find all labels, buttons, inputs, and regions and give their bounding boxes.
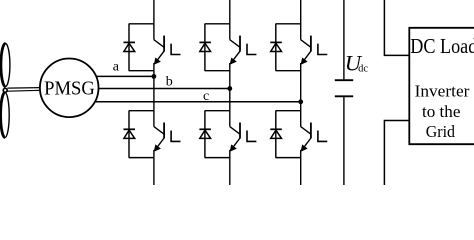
node a label (113, 60, 120, 75)
svg-text:PMSG: PMSG (44, 77, 95, 99)
wire leg1 rail top (153, 0, 155, 40)
wire leg2 rail top (229, 0, 231, 40)
wire leg3 rail middle (300, 63, 302, 127)
wire leg3 rail bottom (300, 150, 302, 185)
diode D4 (199, 129, 211, 138)
wire leg1 rail bottom (153, 150, 155, 185)
label DC Load (410, 35, 474, 58)
label Udc (345, 51, 369, 76)
IGBT Q4 (230, 123, 257, 152)
IGBT Q6 (301, 123, 328, 152)
svg-text:Grid: Grid (426, 122, 456, 141)
generator PMSG (40, 59, 99, 118)
svg-text:to the: to the (422, 102, 460, 121)
node b label (166, 75, 173, 90)
DC load / inverter box (409, 28, 474, 144)
diode D6 (270, 129, 282, 138)
wire D4 branch (205, 111, 230, 158)
svg-text:a: a (113, 60, 120, 75)
wind turbine blade top (1, 44, 10, 87)
junction dot phase c (298, 99, 303, 104)
svg-text:c: c (203, 89, 209, 104)
wire phase a (96, 75, 154, 77)
IGBT Q1 (154, 36, 181, 65)
node c label (203, 89, 209, 104)
wire D1 branch (129, 24, 154, 71)
shaft (7, 88, 40, 92)
wire D3 branch (205, 24, 230, 71)
wire to load box top (384, 0, 409, 55)
svg-text:Inverter: Inverter (415, 82, 470, 101)
wire leg2 rail middle (229, 63, 231, 127)
wire capacitor rail top (343, 0, 345, 79)
wind turbine blade bottom (1, 93, 10, 138)
wire leg3 rail top (300, 0, 302, 40)
capacitor C (335, 80, 353, 96)
IGBT Q5 (301, 36, 328, 65)
svg-text:DC Load: DC Load (410, 35, 474, 58)
IGBT Q2 (154, 123, 181, 152)
svg-text:dc: dc (358, 63, 368, 74)
diode D1 (124, 42, 136, 51)
wire leg1 rail middle (153, 63, 155, 127)
diode D3 (199, 42, 211, 51)
diode D2 (124, 129, 136, 138)
wire phase b (98, 88, 229, 90)
junction dot phase b (227, 86, 232, 91)
wire to load box bottom (384, 121, 409, 186)
wire D6 branch (276, 111, 301, 158)
wire capacitor rail bottom (343, 97, 345, 185)
wind turbine hub (3, 88, 7, 92)
label Inverter to the Grid (415, 82, 470, 142)
wire D2 branch (129, 111, 154, 158)
wire D5 branch (276, 24, 301, 71)
diode D5 (270, 42, 282, 51)
junction dot phase a (152, 74, 157, 79)
IGBT Q3 (230, 36, 257, 65)
wire phase c (95, 101, 301, 103)
wire leg2 rail bottom (229, 150, 231, 185)
svg-text:b: b (166, 75, 173, 90)
